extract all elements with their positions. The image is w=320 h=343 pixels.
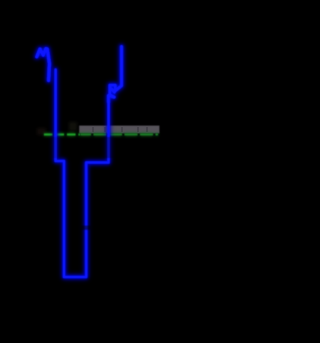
well casing outline (blue) : wide halo layer [37, 47, 122, 278]
casing path [56, 70, 109, 278]
well casing outline (blue) : core layer [37, 47, 122, 278]
water level dashed line (green) [44, 133, 158, 136]
label bar (gray) [79, 126, 159, 134]
well casing outline (blue) : glow layer [37, 47, 122, 278]
faint smudge left of label bar [69, 122, 77, 131]
break symbol right [109, 47, 122, 103]
joint dim spot on right column [81, 226, 91, 230]
faint smudge left of green line [37, 128, 46, 135]
dim segment left casing below water line [51, 137, 61, 158]
dim segment right casing below water line [104, 137, 114, 158]
break symbol left [37, 49, 50, 81]
